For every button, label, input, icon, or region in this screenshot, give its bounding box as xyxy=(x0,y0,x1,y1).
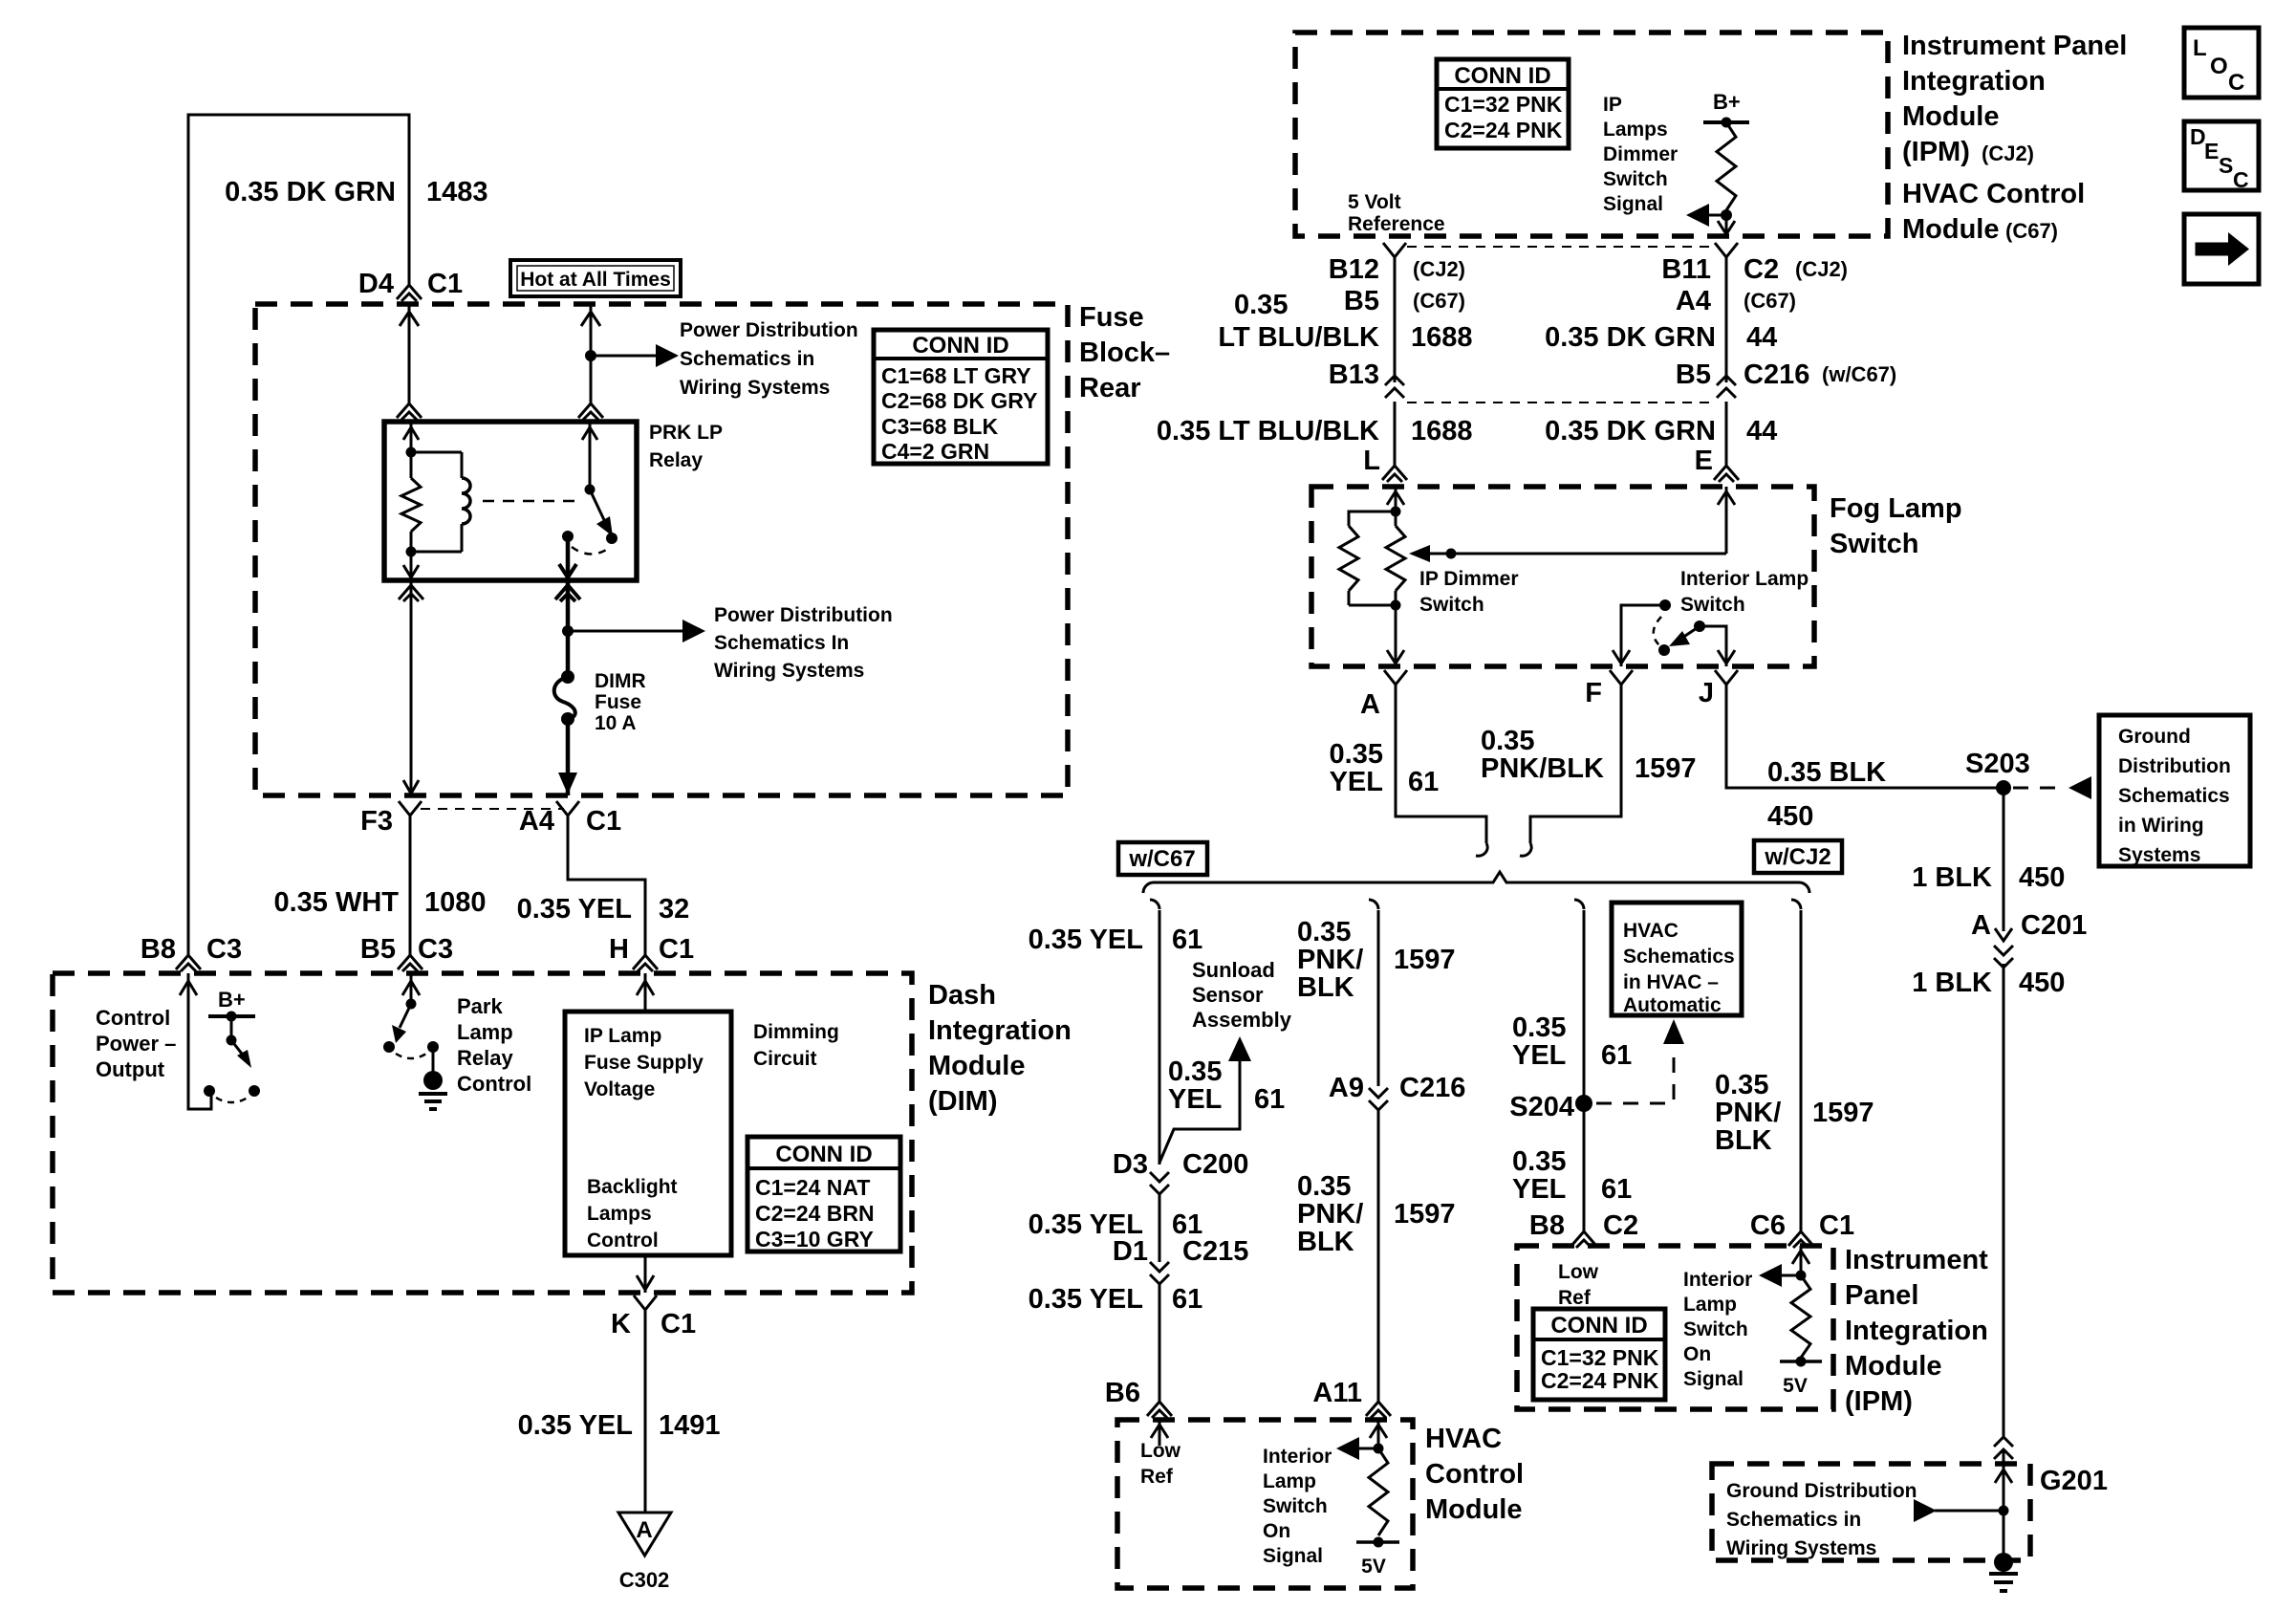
svg-text:1688: 1688 xyxy=(1411,416,1473,446)
svg-text:C1=32 PNK: C1=32 PNK xyxy=(1444,92,1563,117)
svg-text:Ground: Ground xyxy=(2118,726,2191,748)
resistor fog IP dimmer rheostat xyxy=(1395,512,1397,526)
svg-text:Backlight: Backlight xyxy=(587,1176,678,1198)
svg-text:0.35: 0.35 xyxy=(1715,1070,1768,1100)
icon box LOC xyxy=(2184,28,2259,98)
connector C201 arrow and chevrons xyxy=(2003,924,2005,931)
svg-text:A: A xyxy=(636,1517,652,1543)
connector at HVAC B6 xyxy=(1147,1402,1172,1418)
in-line connector C216 chevrons drop2 xyxy=(1369,1088,1388,1110)
svg-text:w/C67: w/C67 xyxy=(1128,846,1195,872)
svg-text:PNK/: PNK/ xyxy=(1297,1199,1363,1230)
wire E wiper feed xyxy=(1725,487,1728,554)
svg-text:C2: C2 xyxy=(1603,1210,1638,1241)
svg-text:5 Volt: 5 Volt xyxy=(1348,191,1401,213)
ground symbol G201 xyxy=(1989,1572,2018,1576)
svg-text:LT BLU/BLK: LT BLU/BLK xyxy=(1218,322,1379,353)
svg-text:0.35: 0.35 xyxy=(1330,739,1383,770)
fog lamp switch dashed box xyxy=(1311,487,1814,666)
svg-text:YEL: YEL xyxy=(1168,1084,1222,1115)
svg-text:C3=68 BLK: C3=68 BLK xyxy=(881,414,998,439)
svg-text:On: On xyxy=(1683,1343,1711,1365)
svg-text:61: 61 xyxy=(1408,767,1439,797)
svg-text:Module: Module xyxy=(1845,1351,1942,1382)
DIM CONN ID table xyxy=(747,1137,900,1252)
relay switch dashed travel arc xyxy=(572,547,608,555)
label box w/CJ2 xyxy=(1754,840,1842,873)
svg-text:C4=2 GRN: C4=2 GRN xyxy=(881,439,989,464)
svg-text:DIMR: DIMR xyxy=(595,670,646,692)
svg-text:(C67): (C67) xyxy=(2005,219,2058,243)
relay node coil top xyxy=(406,447,417,458)
svg-text:Control: Control xyxy=(96,1006,170,1030)
wire 61 drop3 hook xyxy=(1574,900,1584,909)
svg-text:Block–: Block– xyxy=(1079,337,1170,368)
svg-text:Signal: Signal xyxy=(1683,1368,1744,1390)
svg-text:Control: Control xyxy=(457,1072,531,1096)
relay switch contact node left xyxy=(562,531,574,542)
svg-text:F: F xyxy=(1585,678,1602,708)
in-line connector dashed line below IPM xyxy=(1407,246,1714,248)
5V rail HVAC xyxy=(1356,1540,1399,1544)
svg-text:Schematics In: Schematics In xyxy=(714,632,849,654)
svg-text:C201: C201 xyxy=(2021,910,2087,941)
svg-text:E: E xyxy=(1695,446,1713,476)
svg-text:D3: D3 xyxy=(1113,1149,1148,1180)
interior lamp switch lower contact node xyxy=(1658,644,1670,656)
svg-text:S203: S203 xyxy=(1965,749,2030,779)
svg-text:CONN ID: CONN ID xyxy=(775,1142,872,1167)
svg-text:Dimmer: Dimmer xyxy=(1603,143,1678,165)
svg-text:K: K xyxy=(611,1309,631,1339)
svg-text:0.35 BLK: 0.35 BLK xyxy=(1767,757,1886,788)
svg-text:BLK: BLK xyxy=(1297,1227,1354,1257)
wire Hot at All Times feed to relay switch xyxy=(590,304,593,403)
in-line connector dashed line above fog lamp switch xyxy=(1407,402,1714,403)
wire 450 0.35 BLK from J to S203 xyxy=(1726,685,2000,788)
wire 61 0.35 YEL from A xyxy=(1396,685,1486,843)
svg-text:BLK: BLK xyxy=(1297,972,1354,1003)
svg-text:C216: C216 xyxy=(1399,1073,1465,1103)
svg-text:PNK/: PNK/ xyxy=(1297,945,1363,975)
node interior lamp switch on signal HVAC xyxy=(1374,1444,1384,1454)
connector C3 at DIM B5 xyxy=(398,955,422,971)
svg-text:YEL: YEL xyxy=(1512,1174,1566,1205)
relay PRK LP box xyxy=(384,422,637,580)
svg-text:0.35: 0.35 xyxy=(1297,1171,1351,1202)
svg-text:B6: B6 xyxy=(1105,1378,1140,1408)
wire 1597 drop hook xyxy=(1369,900,1378,909)
svg-text:1491: 1491 xyxy=(659,1410,721,1441)
resistor IP lamps dimmer in IPM xyxy=(1717,122,1736,210)
svg-text:A: A xyxy=(1971,910,1991,941)
svg-text:0.35 LT BLU/BLK: 0.35 LT BLU/BLK xyxy=(1157,416,1379,446)
svg-text:CONN ID: CONN ID xyxy=(912,333,1008,359)
svg-text:CONN ID: CONN ID xyxy=(1454,63,1550,89)
wire stub to power distribution schematics (lower) xyxy=(568,630,684,633)
svg-text:0.35 DK GRN: 0.35 DK GRN xyxy=(1545,416,1716,446)
svg-text:A11: A11 xyxy=(1312,1378,1362,1408)
svg-text:Integration: Integration xyxy=(928,1015,1072,1046)
wire 1597 drop4 hook xyxy=(1791,900,1801,909)
interior lamp switch dashed travel arc xyxy=(1654,617,1661,646)
node dimmer pot top xyxy=(1391,507,1401,517)
connector chevron above relay coil xyxy=(397,403,422,420)
svg-text:C1=32 PNK: C1=32 PNK xyxy=(1541,1345,1659,1370)
svg-text:CONN ID: CONN ID xyxy=(1550,1313,1647,1339)
svg-text:IP: IP xyxy=(1603,94,1622,116)
interior lamp switch common xyxy=(1621,605,1665,666)
svg-text:YEL: YEL xyxy=(1330,767,1383,797)
svg-text:Switch: Switch xyxy=(1680,594,1745,616)
splice bus harness option merge xyxy=(1143,872,1799,893)
svg-text:YEL: YEL xyxy=(1512,1040,1566,1071)
svg-text:Switch: Switch xyxy=(1419,594,1484,616)
svg-text:Ref: Ref xyxy=(1558,1287,1592,1309)
svg-text:PNK/BLK: PNK/BLK xyxy=(1481,753,1604,784)
svg-text:On: On xyxy=(1263,1520,1290,1542)
svg-text:C1: C1 xyxy=(661,1309,696,1339)
svg-text:(IPM): (IPM) xyxy=(1902,137,1970,167)
arrow stub ground distribution G201 xyxy=(1935,1510,2004,1513)
svg-text:61: 61 xyxy=(1172,1284,1202,1315)
svg-text:C2=24 BRN: C2=24 BRN xyxy=(755,1201,875,1226)
svg-text:Schematics in: Schematics in xyxy=(680,348,814,370)
svg-text:Fuse Supply: Fuse Supply xyxy=(584,1052,704,1074)
icon box arrow xyxy=(2184,214,2259,284)
connector C1 at fuse block D4 xyxy=(397,285,422,301)
wire B11 exit IPM xyxy=(1725,215,1728,236)
IPM CONN ID table xyxy=(1437,59,1569,148)
svg-text:C1=68 LT GRY: C1=68 LT GRY xyxy=(881,363,1031,388)
connector C1 at DIM H xyxy=(633,955,658,971)
in-line connector C215 chevrons xyxy=(1150,1262,1169,1284)
relay coil winding xyxy=(411,451,462,454)
svg-text:B+: B+ xyxy=(218,988,246,1012)
svg-text:Switch: Switch xyxy=(1263,1495,1328,1517)
instrument panel integration module IPM dashed box xyxy=(1295,33,1888,236)
svg-text:O: O xyxy=(2210,54,2228,79)
svg-text:Lamp: Lamp xyxy=(1263,1470,1316,1492)
svg-text:Switch: Switch xyxy=(1683,1318,1748,1340)
relay output wire inside box xyxy=(566,536,571,580)
off-page connector A triangle C302 xyxy=(618,1513,671,1556)
svg-text:A: A xyxy=(1360,689,1380,720)
svg-text:Relay: Relay xyxy=(457,1046,513,1070)
svg-text:Dash: Dash xyxy=(928,980,996,1011)
connector at F3 xyxy=(399,801,422,816)
ground symbol park lamp relay xyxy=(419,1092,447,1096)
svg-text:0.35: 0.35 xyxy=(1512,1146,1566,1177)
wire 450 1 BLK lower xyxy=(2003,964,2005,1439)
svg-text:Module: Module xyxy=(1902,101,2000,132)
svg-text:L: L xyxy=(1363,446,1380,476)
relay actuation dashed link xyxy=(483,500,581,503)
svg-text:(w/C67): (w/C67) xyxy=(1822,362,1896,386)
svg-text:in Wiring: in Wiring xyxy=(2118,815,2204,837)
in-line connector chevrons wire 44 xyxy=(1717,376,1736,398)
wire relay output to DIMR fuse xyxy=(566,580,571,677)
svg-text:HVAC Control: HVAC Control xyxy=(1902,179,2085,209)
svg-text:J: J xyxy=(1699,678,1714,708)
svg-text:Sensor: Sensor xyxy=(1192,983,1264,1007)
svg-text:Instrument: Instrument xyxy=(1845,1245,1988,1275)
wire 1688 upper segment xyxy=(1394,257,1397,382)
svg-text:C2=24 PNK: C2=24 PNK xyxy=(1541,1368,1659,1393)
connector at J xyxy=(1715,670,1738,685)
svg-text:0.35: 0.35 xyxy=(1234,290,1288,320)
svg-text:HVAC: HVAC xyxy=(1623,920,1679,942)
wire branch to sunload sensor xyxy=(1159,1059,1240,1163)
svg-text:L: L xyxy=(2193,35,2207,61)
svg-text:B5: B5 xyxy=(1676,359,1711,390)
svg-text:Distribution: Distribution xyxy=(2118,755,2231,777)
svg-text:0.35 DK GRN: 0.35 DK GRN xyxy=(1545,322,1716,353)
node 5V HVAC xyxy=(1374,1537,1384,1548)
node 5V IPM xyxy=(1796,1357,1807,1367)
svg-text:450: 450 xyxy=(2019,968,2065,998)
svg-text:(DIM): (DIM) xyxy=(928,1086,997,1117)
svg-text:(C67): (C67) xyxy=(1413,289,1465,313)
resistor fog IP dimmer fixed xyxy=(1349,512,1396,526)
svg-text:Lamps: Lamps xyxy=(1603,119,1668,141)
connector at A4 xyxy=(556,801,579,816)
svg-text:5V: 5V xyxy=(1783,1375,1808,1397)
svg-text:61: 61 xyxy=(1172,925,1202,955)
arrow stub interior lamp switch IPM xyxy=(1780,1274,1801,1277)
svg-text:Output: Output xyxy=(96,1057,165,1081)
svg-text:C2: C2 xyxy=(1744,254,1779,285)
wire L into fog lamp switch xyxy=(1395,487,1397,512)
ground node park lamp relay xyxy=(423,1071,443,1090)
svg-text:Hot at All Times: Hot at All Times xyxy=(520,269,671,291)
dimming circuit box xyxy=(565,1012,731,1255)
svg-text:C: C xyxy=(2228,70,2244,96)
svg-text:Power Distribution: Power Distribution xyxy=(714,604,893,626)
svg-text:C3=10 GRY: C3=10 GRY xyxy=(755,1227,874,1252)
wire 1597 0.35 PNK/BLK from F xyxy=(1530,685,1621,843)
interior lamp switch blade node xyxy=(1694,620,1705,632)
svg-text:D1: D1 xyxy=(1113,1236,1148,1267)
relay resistor xyxy=(410,452,413,478)
svg-text:Switch: Switch xyxy=(1830,529,1918,559)
wire B5 into DIM park lamp relay control xyxy=(410,973,413,1004)
wire relay coil to F3 xyxy=(410,580,413,794)
connector C3 at DIM B8 xyxy=(176,955,201,971)
svg-text:PNK/: PNK/ xyxy=(1715,1098,1781,1128)
IPM lower CONN ID table xyxy=(1533,1309,1665,1400)
dash integration module DIM dashed box xyxy=(53,973,912,1293)
svg-text:0.35 YEL: 0.35 YEL xyxy=(1029,925,1143,955)
interior lamp switch common node xyxy=(1659,599,1671,611)
switch node park lamp relay control xyxy=(406,999,417,1010)
svg-text:Power –: Power – xyxy=(96,1032,176,1056)
svg-text:Fuse: Fuse xyxy=(1079,302,1144,333)
svg-text:1 BLK: 1 BLK xyxy=(1912,862,1992,893)
svg-text:Low: Low xyxy=(1558,1261,1599,1283)
wire 1491 0.35 YEL xyxy=(644,1310,647,1513)
connector chevron below relay left xyxy=(399,585,423,601)
svg-text:1597: 1597 xyxy=(1394,945,1456,975)
svg-text:Interior: Interior xyxy=(1263,1446,1332,1468)
svg-text:C1: C1 xyxy=(427,269,463,299)
switch blade park lamp relay control xyxy=(400,1004,411,1028)
svg-text:F3: F3 xyxy=(360,806,393,837)
svg-text:C2=68 DK GRY: C2=68 DK GRY xyxy=(881,388,1037,413)
svg-text:Rear: Rear xyxy=(1079,373,1141,403)
svg-text:Interior: Interior xyxy=(1683,1269,1752,1291)
svg-text:Park: Park xyxy=(457,994,503,1018)
svg-text:0.35 YEL: 0.35 YEL xyxy=(1029,1284,1143,1315)
svg-text:Fog Lamp: Fog Lamp xyxy=(1830,493,1962,524)
svg-text:Automatic: Automatic xyxy=(1623,994,1722,1016)
wire H into dimming circuit xyxy=(644,973,647,1012)
relay node coil bottom xyxy=(406,547,417,557)
svg-text:C6: C6 xyxy=(1750,1210,1786,1241)
wire dimming circuit output K xyxy=(644,1255,647,1293)
relay switch blade xyxy=(590,490,605,522)
svg-text:0.35: 0.35 xyxy=(1481,726,1534,756)
switch dashed travel arc park lamp relay control xyxy=(396,1054,426,1058)
svg-text:S: S xyxy=(2219,153,2233,178)
interior lamp switch blade xyxy=(1677,626,1700,642)
svg-text:61: 61 xyxy=(1254,1084,1285,1115)
svg-text:C1: C1 xyxy=(659,934,694,965)
svg-text:Instrument Panel: Instrument Panel xyxy=(1902,31,2127,61)
svg-text:Lamp: Lamp xyxy=(457,1020,513,1044)
svg-text:0.35: 0.35 xyxy=(1297,917,1351,947)
svg-text:Fuse: Fuse xyxy=(595,691,641,713)
connector at B11 xyxy=(1715,243,1738,257)
svg-text:A9: A9 xyxy=(1329,1073,1364,1103)
svg-text:Wiring Systems: Wiring Systems xyxy=(680,377,830,399)
connector C1 at DIM K xyxy=(634,1295,657,1310)
svg-text:A4: A4 xyxy=(519,806,554,837)
svg-text:C: C xyxy=(2233,167,2249,192)
relay switch contact node right xyxy=(606,533,617,544)
svg-text:Systems: Systems xyxy=(2118,844,2200,866)
svg-text:1597: 1597 xyxy=(1635,753,1697,784)
svg-text:0.35: 0.35 xyxy=(1512,1012,1566,1043)
svg-text:1688: 1688 xyxy=(1411,322,1473,353)
wire C6 into IPM interior lamp switch on signal xyxy=(1800,1246,1803,1275)
relay switch common leg xyxy=(589,422,592,490)
wire A11 into HVAC interior lamp switch on signal xyxy=(1377,1420,1380,1448)
svg-text:C215: C215 xyxy=(1182,1236,1248,1267)
svg-text:0.35 YEL: 0.35 YEL xyxy=(517,894,632,925)
svg-text:Ground Distribution: Ground Distribution xyxy=(1726,1480,1917,1502)
wire D4 to PRK LP relay coil xyxy=(408,304,411,403)
node junction on hot feed xyxy=(585,350,596,361)
relay coil bottom exit xyxy=(410,552,413,580)
svg-text:C3: C3 xyxy=(418,934,453,965)
svg-text:B11: B11 xyxy=(1661,254,1711,285)
svg-text:Schematics: Schematics xyxy=(2118,785,2230,807)
connector at B12 xyxy=(1383,243,1406,257)
svg-text:(CJ2): (CJ2) xyxy=(1795,257,1848,281)
svg-text:Lamp: Lamp xyxy=(1683,1294,1737,1316)
svg-text:32: 32 xyxy=(659,894,689,925)
svg-text:450: 450 xyxy=(1767,801,1813,832)
svg-text:Integration: Integration xyxy=(1845,1316,1988,1346)
in-line chevrons at G201 xyxy=(1994,1437,2013,1459)
connector at fog lamp E xyxy=(1714,466,1739,482)
svg-text:C200: C200 xyxy=(1182,1149,1248,1180)
relay coil leg entering box xyxy=(410,422,413,452)
svg-text:C1: C1 xyxy=(1819,1210,1854,1241)
splice S203 xyxy=(1996,780,2011,795)
in-line connector chevrons wire 1688 xyxy=(1385,376,1404,398)
svg-text:B12: B12 xyxy=(1329,254,1379,285)
svg-text:PRK LP: PRK LP xyxy=(649,422,723,444)
wire interior lamp switch to J xyxy=(1700,626,1726,666)
svg-text:61: 61 xyxy=(1601,1174,1632,1205)
svg-text:B5: B5 xyxy=(360,934,396,965)
svg-text:Panel: Panel xyxy=(1845,1280,1918,1311)
wire 1080 0.35 WHT xyxy=(409,816,412,955)
svg-text:5V: 5V xyxy=(1361,1556,1386,1578)
svg-text:C302: C302 xyxy=(619,1568,670,1592)
arrow stub interior lamp switch HVAC xyxy=(1357,1448,1378,1450)
svg-text:Module: Module xyxy=(1425,1494,1523,1525)
splice S204 xyxy=(1575,1095,1592,1112)
fuse block rear dashed box xyxy=(255,304,1068,795)
svg-text:1597: 1597 xyxy=(1812,1098,1874,1128)
dashed stub S203 to ground distribution xyxy=(2013,787,2067,790)
svg-text:H: H xyxy=(609,934,629,965)
wire dimmer output A xyxy=(1395,605,1397,666)
wire 32 0.35 YEL xyxy=(568,816,645,955)
icon box DESC xyxy=(2184,121,2259,190)
svg-text:450: 450 xyxy=(2019,862,2065,893)
svg-text:1 BLK: 1 BLK xyxy=(1912,968,1992,998)
HVAC control module dashed box xyxy=(1117,1420,1413,1588)
svg-text:Signal: Signal xyxy=(1263,1545,1323,1567)
instrument panel integration module IPM lower dashed box xyxy=(1517,1246,1833,1409)
resistor interior lamp switch IPM xyxy=(1791,1275,1810,1358)
svg-text:(CJ2): (CJ2) xyxy=(1982,142,2034,165)
connector chevron above relay switch xyxy=(578,403,603,420)
svg-text:B8: B8 xyxy=(1529,1210,1565,1241)
label box Hot at All Times xyxy=(510,260,681,296)
svg-text:(CJ2): (CJ2) xyxy=(1413,257,1465,281)
svg-text:44: 44 xyxy=(1746,416,1777,446)
svg-text:Reference: Reference xyxy=(1348,213,1445,235)
arrow stub dimmer switch signal xyxy=(1707,214,1726,217)
HVAC Schematics in HVAC Automatic box xyxy=(1612,903,1742,1015)
svg-text:S204: S204 xyxy=(1509,1092,1574,1122)
svg-text:C1: C1 xyxy=(586,806,621,837)
switch contact nodes control power output xyxy=(204,1085,215,1097)
svg-text:BLK: BLK xyxy=(1715,1125,1772,1156)
node dimmer switch signal xyxy=(1721,209,1732,221)
fuse block CONN ID table xyxy=(874,330,1048,464)
svg-text:0.35 DK GRN: 0.35 DK GRN xyxy=(225,177,396,207)
svg-text:Circuit: Circuit xyxy=(753,1048,817,1070)
wire stub to power distribution schematics (upper) xyxy=(591,355,658,358)
svg-text:1597: 1597 xyxy=(1394,1199,1456,1230)
connector at IPM C6 xyxy=(1788,1231,1813,1248)
svg-text:Low: Low xyxy=(1140,1440,1181,1462)
wire 450 1 BLK upper xyxy=(2003,788,2005,924)
svg-text:Control: Control xyxy=(587,1230,659,1252)
svg-text:B5: B5 xyxy=(1344,286,1379,316)
svg-text:10 A: 10 A xyxy=(595,712,637,734)
connector at IPM B8 xyxy=(1571,1231,1596,1248)
svg-text:Wiring Systems: Wiring Systems xyxy=(714,660,864,682)
svg-text:C216: C216 xyxy=(1744,359,1809,390)
svg-text:1080: 1080 xyxy=(424,887,487,918)
